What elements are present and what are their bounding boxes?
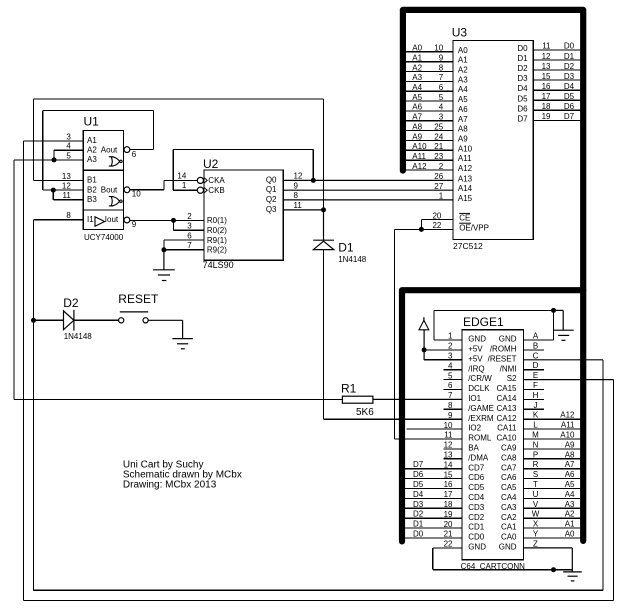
svg-text:D3: D3	[517, 74, 528, 83]
svg-text:U2: U2	[203, 157, 219, 171]
svg-text:V: V	[533, 500, 539, 509]
junction EDGE1 +5V pin2	[422, 347, 427, 352]
svg-text:J: J	[534, 401, 538, 410]
svg-text:BA: BA	[468, 444, 479, 453]
svg-text:M: M	[532, 431, 539, 440]
svg-text:CD6: CD6	[468, 473, 485, 482]
svg-text:A4: A4	[565, 490, 575, 499]
svg-text:Q3: Q3	[266, 205, 277, 214]
svg-text:D2: D2	[413, 510, 424, 519]
svg-text:D6: D6	[517, 104, 528, 113]
EDGE1 pin names	[468, 335, 517, 552]
svg-text:D2: D2	[63, 296, 79, 310]
svg-text:D0: D0	[564, 42, 575, 51]
svg-text:D5: D5	[564, 92, 575, 101]
ground at EDGE1 GND pins 22/Z	[523, 548, 581, 581]
svg-text:R0(2): R0(2)	[207, 226, 227, 235]
svg-text:CA0: CA0	[501, 533, 517, 542]
diode D1	[313, 240, 334, 249]
U1 gate B NOR symbol	[109, 197, 122, 206]
svg-text:D7: D7	[413, 460, 424, 469]
svg-text:A10: A10	[560, 431, 575, 440]
svg-text:X: X	[533, 520, 539, 529]
svg-text:A2: A2	[412, 63, 422, 72]
svg-text:25: 25	[434, 122, 443, 131]
svg-text:A4: A4	[412, 83, 422, 92]
svg-text:CA3: CA3	[501, 503, 517, 512]
wire EDGE1 pin A GND	[523, 310, 553, 340]
cartridge connector EDGE1	[462, 330, 523, 560]
svg-text:DCLK: DCLK	[468, 384, 490, 393]
wire U2 Q2 to U3 A15	[283, 199, 453, 201]
svg-text:18: 18	[542, 102, 551, 111]
svg-text:CD7: CD7	[468, 463, 485, 472]
wire EDGE1 pin E S2 to loop	[523, 379, 613, 381]
svg-text:12: 12	[294, 172, 303, 181]
svg-text:2: 2	[187, 212, 192, 221]
EDGE1 address labels A12-A0 on bus side	[560, 411, 575, 539]
wire U1 pin8 I1 from /RESET loop	[34, 220, 604, 591]
svg-text:A11: A11	[561, 421, 575, 430]
svg-text:24: 24	[434, 132, 443, 141]
U1 pin numbers	[62, 132, 141, 229]
svg-text:3: 3	[448, 352, 453, 361]
svg-text:1: 1	[182, 181, 187, 190]
svg-text:14: 14	[177, 171, 186, 180]
svg-text:A3: A3	[565, 500, 575, 509]
svg-text:EDGE1: EDGE1	[463, 315, 504, 329]
svg-text:D4: D4	[517, 84, 528, 93]
svg-text:/RESET: /RESET	[488, 354, 517, 363]
svg-text:A3: A3	[412, 73, 422, 82]
svg-text:CA14: CA14	[496, 394, 517, 403]
svg-text:+5V: +5V	[468, 345, 483, 354]
wire U1 pin3 input from S2 loop	[24, 141, 614, 601]
svg-text:IO1: IO1	[468, 394, 481, 403]
svg-text:4: 4	[448, 361, 453, 370]
svg-text:D4: D4	[413, 490, 424, 499]
svg-text:K: K	[533, 411, 539, 420]
svg-text:A0: A0	[412, 44, 422, 53]
svg-text:15: 15	[444, 470, 453, 479]
wire EDGE1 pin1 GND loop	[434, 310, 554, 340]
svg-text:D1: D1	[564, 52, 575, 61]
U2 clock wedge CKB	[204, 188, 207, 193]
wire EDGE1 pin C /RESET to loop	[523, 359, 603, 361]
svg-text:A12: A12	[412, 162, 427, 171]
svg-text:R1: R1	[341, 381, 357, 395]
svg-text:P: P	[533, 450, 538, 459]
svg-text:CA10: CA10	[496, 434, 517, 443]
svg-text:3: 3	[66, 132, 71, 141]
svg-text:CA9: CA9	[501, 444, 517, 453]
svg-text:I1: I1	[87, 215, 94, 224]
svg-text:15: 15	[542, 72, 551, 81]
svg-text:A1: A1	[565, 520, 575, 529]
svg-text:A0: A0	[458, 46, 468, 55]
svg-text:Q1: Q1	[266, 185, 277, 194]
wire D1 cathode to Q3	[323, 210, 325, 240]
svg-text:A10: A10	[412, 142, 427, 151]
wire U2 Q0 to U3 A13	[283, 179, 453, 181]
decade counter U2	[204, 170, 283, 260]
junction EDGE1 top ground	[551, 308, 556, 313]
svg-text:R9(1): R9(1)	[207, 236, 227, 245]
wire EDGE1 +5V pins 2,3	[424, 350, 462, 360]
junction U1 B2/B3	[51, 188, 56, 193]
svg-text:CA8: CA8	[501, 453, 517, 462]
svg-text:8: 8	[439, 63, 444, 72]
wire U1 pin11 to pin12	[53, 190, 83, 200]
svg-text:/EXRM: /EXRM	[468, 414, 494, 423]
svg-text:1: 1	[448, 332, 453, 341]
svg-text:CA11: CA11	[497, 424, 517, 433]
svg-text:A7: A7	[565, 460, 575, 469]
junction U2 R9/ground	[161, 247, 166, 252]
U1 input pin names	[87, 136, 119, 224]
wire U1 pin5 to R1	[14, 160, 343, 400]
ground at EDGE1 GND pins 1/A	[554, 310, 574, 340]
svg-text:CA7: CA7	[501, 463, 517, 472]
svg-text:U3: U3	[452, 26, 468, 40]
svg-text:A7: A7	[458, 115, 468, 124]
svg-text:6: 6	[132, 150, 137, 159]
U3 address pin stubs A0-A12	[403, 52, 453, 170]
svg-text:UCY74000: UCY74000	[84, 233, 124, 242]
svg-text:GND: GND	[499, 543, 517, 552]
svg-text:A2: A2	[87, 145, 97, 154]
svg-text:7: 7	[187, 241, 192, 250]
wire U1 pin10 Bout to U2 CKA	[130, 180, 198, 189]
svg-text:A12: A12	[560, 411, 575, 420]
svg-text:3: 3	[187, 222, 192, 231]
svg-text:CA4: CA4	[501, 493, 517, 502]
svg-text:A3: A3	[87, 155, 97, 164]
svg-text:A8: A8	[458, 125, 468, 134]
svg-text:/IRQ: /IRQ	[468, 364, 484, 373]
svg-text:B1: B1	[87, 176, 97, 185]
svg-text:4: 4	[439, 103, 444, 112]
U2 pin numbers	[177, 171, 303, 250]
svg-text:D1: D1	[338, 241, 354, 255]
svg-text:9: 9	[439, 53, 444, 62]
svg-text:5K6: 5K6	[356, 407, 374, 418]
svg-text:D6: D6	[413, 470, 424, 479]
wire EDGE1 pin22 GND to bottom ground	[433, 548, 573, 570]
svg-text:C: C	[533, 351, 539, 360]
svg-text:2: 2	[448, 342, 453, 351]
wire U1 pin13 B1 to U2 Q3	[34, 99, 324, 210]
wire U1 pin12 feedback from Aout pin6	[43, 111, 154, 191]
svg-text:Q2: Q2	[266, 195, 277, 204]
svg-text:D7: D7	[564, 112, 575, 121]
svg-text:13: 13	[62, 172, 71, 181]
svg-text:A9: A9	[565, 440, 575, 449]
svg-text:S2: S2	[507, 374, 517, 383]
svg-text:2: 2	[439, 162, 444, 171]
svg-text:12: 12	[62, 182, 71, 191]
svg-text:6: 6	[448, 381, 453, 390]
svg-text:S: S	[533, 470, 538, 479]
svg-text:20: 20	[444, 520, 453, 529]
svg-text:1N4148: 1N4148	[64, 332, 93, 341]
svg-text:D3: D3	[564, 72, 575, 81]
ground at RESET switch	[148, 320, 193, 349]
svg-text:GND: GND	[499, 335, 517, 344]
svg-text:CD5: CD5	[468, 483, 485, 492]
svg-text:D0: D0	[413, 530, 424, 539]
+5V power arrow	[419, 317, 429, 360]
svg-text:A6: A6	[412, 103, 422, 112]
wire U3 CE to OE	[421, 220, 453, 230]
svg-text:A7: A7	[412, 113, 422, 122]
svg-text:A1: A1	[458, 56, 468, 65]
svg-text:RESET: RESET	[118, 292, 159, 306]
svg-text:CA1: CA1	[501, 523, 517, 532]
svg-text:8: 8	[66, 211, 71, 220]
svg-text:A12: A12	[458, 164, 473, 173]
svg-text:21: 21	[444, 530, 453, 539]
junction D2 at /RESET wire	[31, 318, 36, 323]
svg-text:16: 16	[444, 480, 453, 489]
wire U2 Q1 to U3 A14	[283, 189, 453, 191]
svg-text:/GAME: /GAME	[468, 404, 494, 413]
EDGE1 plain left pin stubs	[402, 370, 462, 538]
svg-text:A9: A9	[412, 132, 422, 141]
svg-text:13: 13	[542, 62, 551, 71]
svg-text:22: 22	[444, 540, 453, 549]
svg-text:D5: D5	[413, 480, 424, 489]
svg-text:6: 6	[439, 83, 444, 92]
svg-text:+5V: +5V	[468, 354, 483, 363]
svg-text:CA13: CA13	[496, 404, 517, 413]
svg-text:18: 18	[444, 500, 453, 509]
svg-text:CD4: CD4	[468, 493, 485, 502]
wire U3 OE/VPP to EDGE1 pin11 ROML	[395, 229, 463, 439]
svg-text:A13: A13	[458, 174, 473, 183]
svg-text:Drawing: MCbx 2013: Drawing: MCbx 2013	[123, 479, 217, 490]
svg-text:CA6: CA6	[501, 473, 517, 482]
svg-text:Aout: Aout	[101, 145, 118, 154]
junction U3 CE/OE	[419, 227, 424, 232]
svg-text:CKB: CKB	[208, 186, 224, 195]
bus: address bus around U3	[403, 10, 583, 541]
svg-text:A0: A0	[565, 530, 575, 539]
svg-text:A5: A5	[565, 480, 575, 489]
svg-text:B: B	[533, 341, 538, 350]
svg-text:B3: B3	[87, 195, 97, 204]
U2 clock input bubbles pins 14,1	[197, 177, 203, 193]
svg-text:9: 9	[132, 220, 137, 229]
svg-text:OE/VPP: OE/VPP	[459, 223, 489, 232]
svg-text:CD0: CD0	[468, 533, 485, 542]
EDGE1 plain right pin stubs	[523, 350, 581, 538]
svg-text:17: 17	[444, 490, 453, 499]
junction U2 Q0/CKB	[311, 178, 316, 183]
svg-text:CE: CE	[459, 214, 470, 223]
svg-text:B2: B2	[87, 185, 97, 194]
EDGE1 pin numbers 1-22	[444, 332, 453, 549]
svg-text:8: 8	[294, 191, 299, 200]
svg-text:D6: D6	[564, 102, 575, 111]
svg-text:CA2: CA2	[501, 513, 517, 522]
junction U1 Iout/R0	[171, 218, 176, 223]
svg-text:9: 9	[448, 411, 453, 420]
svg-text:6: 6	[187, 232, 192, 241]
svg-text:11: 11	[294, 201, 303, 210]
schematic credit text	[123, 460, 242, 491]
wire U2 CKB from Q0	[173, 150, 313, 191]
svg-text:D2: D2	[564, 62, 575, 71]
svg-text:12: 12	[444, 441, 453, 450]
svg-text:4: 4	[66, 142, 71, 151]
svg-text:5: 5	[66, 151, 71, 160]
svg-text:19: 19	[542, 112, 551, 121]
svg-text:D1: D1	[517, 54, 528, 63]
svg-text:CA5: CA5	[501, 483, 517, 492]
svg-text:D0: D0	[517, 44, 528, 53]
wire U2 Q3 to D1 node	[283, 209, 323, 211]
svg-text:A14: A14	[458, 184, 473, 193]
svg-text:A5: A5	[458, 95, 468, 104]
svg-text:R0(1): R0(1)	[207, 216, 227, 225]
junction U1 A2/A3	[52, 157, 57, 162]
wire R1 to EDGE1 pin7 IO1	[373, 398, 462, 400]
svg-text:D4: D4	[564, 82, 575, 91]
svg-text:A6: A6	[458, 105, 468, 114]
svg-text:10: 10	[434, 44, 443, 53]
ground at U2 reset pins	[153, 250, 175, 281]
svg-text:IO2: IO2	[468, 424, 481, 433]
svg-text:27C512: 27C512	[453, 241, 483, 251]
U2 pin names	[207, 175, 277, 254]
svg-text:CD3: CD3	[468, 503, 485, 512]
svg-text:Q0: Q0	[266, 175, 277, 184]
svg-text:A4: A4	[458, 85, 468, 94]
bus: address/data bus around EDGE1	[402, 290, 583, 541]
svg-text:H: H	[533, 391, 539, 400]
svg-text:U: U	[533, 490, 539, 499]
svg-text:74LS90: 74LS90	[203, 260, 234, 270]
EDGE1 pin letters A-Z	[532, 332, 540, 549]
svg-text:19: 19	[444, 510, 453, 519]
svg-text:10: 10	[444, 421, 453, 430]
svg-text:11: 11	[542, 42, 551, 51]
svg-text:D2: D2	[517, 64, 528, 73]
svg-text:A1: A1	[87, 136, 97, 145]
svg-text:U1: U1	[84, 115, 100, 129]
svg-text:10: 10	[132, 189, 141, 198]
svg-text:A15: A15	[458, 194, 473, 203]
wire D2 reset branch	[34, 319, 119, 321]
svg-text:E: E	[533, 371, 538, 380]
svg-text:/ROMH: /ROMH	[490, 345, 517, 354]
junction U2 Q3/B1/D1	[321, 207, 326, 212]
svg-text:A2: A2	[458, 66, 468, 75]
svg-text:Bout: Bout	[101, 185, 118, 194]
svg-text:N: N	[533, 440, 539, 449]
svg-text:8: 8	[448, 401, 453, 410]
svg-text:A1: A1	[412, 53, 422, 62]
U3 pin number and name labels left	[412, 44, 472, 231]
EDGE1 data labels D7-D0 on bus side	[413, 460, 424, 538]
U1 inverter symbol	[95, 217, 105, 226]
junction EDGE1 bottom ground	[551, 567, 556, 572]
svg-text:A6: A6	[565, 470, 575, 479]
EPROM U3	[453, 40, 533, 239]
svg-text:GND: GND	[468, 543, 486, 552]
U2 clock wedge CKA	[204, 178, 207, 183]
U1 gate A NOR symbol	[109, 157, 122, 166]
svg-text:7: 7	[439, 73, 444, 82]
svg-text:9: 9	[294, 181, 299, 190]
svg-text:7: 7	[448, 391, 453, 400]
svg-text:D1: D1	[413, 520, 424, 529]
svg-text:A10: A10	[458, 144, 473, 153]
svg-text:W: W	[532, 510, 540, 519]
svg-text:23: 23	[434, 152, 443, 161]
svg-text:R9(2): R9(2)	[207, 246, 227, 255]
svg-text:A5: A5	[412, 93, 422, 102]
svg-text:/DMA: /DMA	[468, 453, 489, 462]
U3 data pin labels right	[517, 42, 574, 124]
svg-text:CKA: CKA	[208, 176, 225, 185]
svg-text:CA15: CA15	[496, 384, 517, 393]
wire U1 pin4 to pin5	[54, 150, 83, 160]
svg-text:21: 21	[434, 142, 443, 151]
svg-text:CA12: CA12	[496, 414, 517, 423]
svg-text:A9: A9	[458, 134, 468, 143]
svg-text:GND: GND	[468, 335, 486, 344]
svg-text:5: 5	[448, 371, 453, 380]
svg-text:A: A	[533, 332, 539, 341]
triple NOR gate U1	[83, 130, 123, 229]
svg-text:14: 14	[444, 460, 453, 469]
svg-text:A8: A8	[412, 122, 422, 131]
svg-text:ROML: ROML	[468, 434, 492, 443]
svg-text:/CR/W: /CR/W	[468, 374, 492, 383]
svg-text:A11: A11	[458, 154, 472, 163]
svg-text:13: 13	[444, 451, 453, 460]
diode D2	[64, 310, 74, 331]
svg-text:D5: D5	[517, 94, 528, 103]
svg-text:Iout: Iout	[105, 215, 119, 224]
svg-text:R: R	[533, 460, 539, 469]
wire U1 pin9 Iout to U2 R0 pins	[130, 220, 204, 230]
svg-text:11: 11	[62, 191, 71, 200]
svg-text:17: 17	[542, 92, 551, 101]
svg-text:F: F	[533, 381, 538, 390]
svg-text:T: T	[533, 480, 538, 489]
svg-text:11: 11	[444, 431, 453, 440]
svg-text:Y: Y	[533, 530, 539, 539]
svg-text:CD2: CD2	[468, 513, 485, 522]
svg-text:3: 3	[439, 113, 444, 122]
svg-text:12: 12	[542, 52, 551, 61]
svg-text:5: 5	[439, 93, 444, 102]
svg-text:D3: D3	[413, 500, 424, 509]
svg-text:D7: D7	[517, 114, 528, 123]
svg-text:1N4148: 1N4148	[338, 255, 367, 264]
U3 data pin stubs D0-D7	[533, 50, 583, 120]
svg-text:A2: A2	[565, 510, 575, 519]
svg-text:CD1: CD1	[468, 523, 485, 532]
svg-text:Z: Z	[533, 539, 538, 548]
wire D1 anode to EDGE1 pin9 /EXRM	[324, 250, 463, 420]
svg-text:A11: A11	[412, 152, 426, 161]
svg-text:D: D	[533, 361, 539, 370]
resistor R1	[342, 396, 373, 403]
